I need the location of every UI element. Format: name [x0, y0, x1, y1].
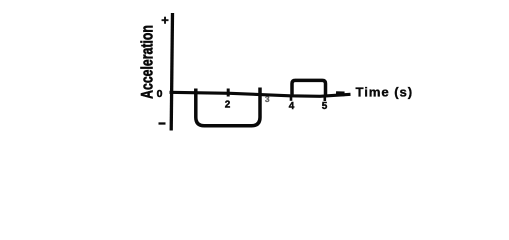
y axis line	[171, 13, 172, 131]
svg-text:4: 4	[289, 101, 295, 112]
positive pulse t=4 to 5	[292, 80, 326, 97]
svg-text:Acceleration: Acceleration	[139, 25, 157, 99]
svg-text:2: 2	[225, 100, 231, 111]
tick t=2	[227, 89, 230, 97]
x axis end blob	[336, 91, 345, 96]
svg-text:Time (s): Time (s)	[356, 85, 414, 100]
tick t=4	[290, 96, 293, 101]
negative pulse t=1 to 3	[196, 88, 260, 126]
svg-text:5: 5	[322, 101, 328, 112]
x axis zero line	[170, 92, 351, 96]
svg-text:0: 0	[157, 88, 163, 100]
tick t=5	[323, 97, 326, 101]
minus sign	[159, 122, 166, 124]
svg-text:+: +	[161, 13, 169, 28]
